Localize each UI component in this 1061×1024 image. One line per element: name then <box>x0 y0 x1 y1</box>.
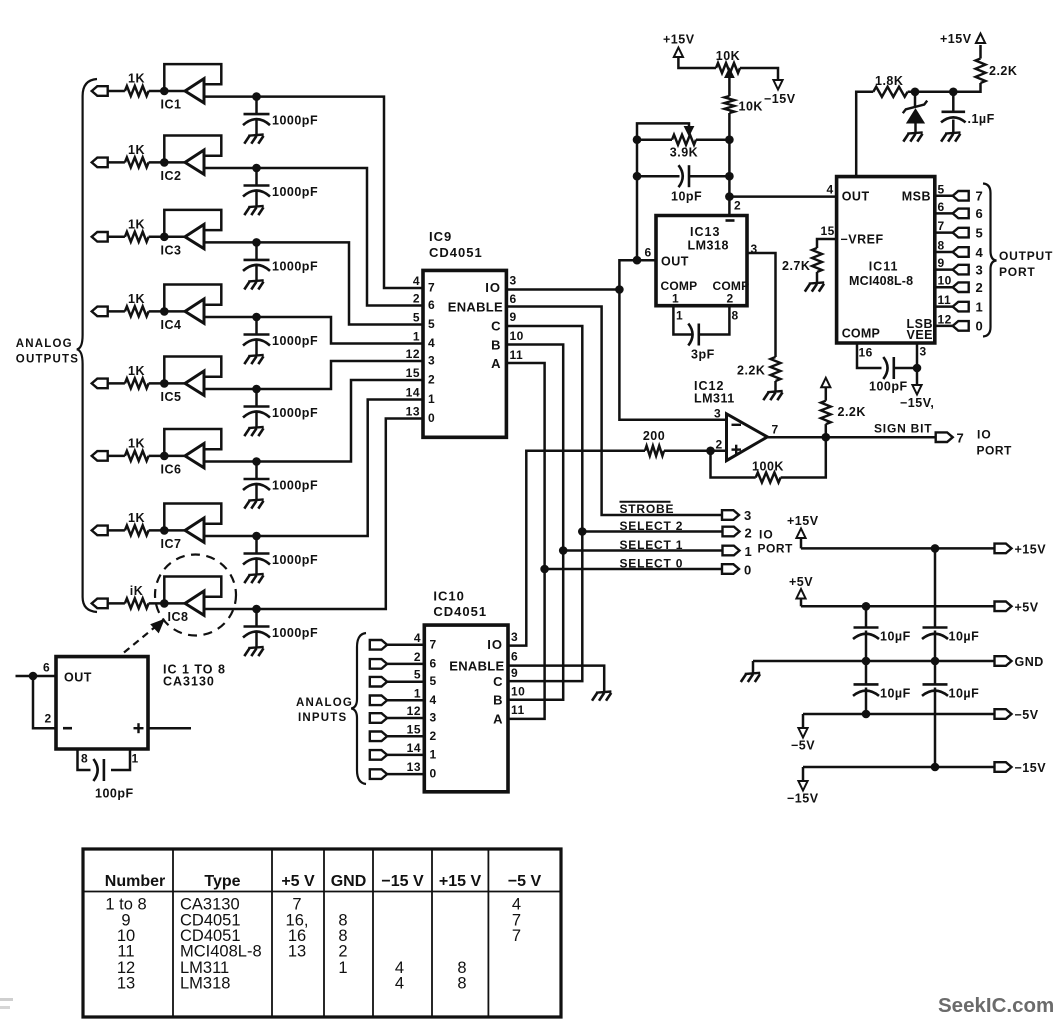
capacitor 1000pF (IC8) <box>243 609 318 656</box>
svg-text:11: 11 <box>510 348 524 362</box>
label LM318 <box>688 239 729 253</box>
svg-text:9: 9 <box>938 256 945 270</box>
IC13 box (LM318 op-amp) <box>656 216 747 306</box>
svg-text:0: 0 <box>428 411 435 425</box>
IC9 pin 6 ENABLE wire <box>506 307 722 516</box>
output port terminal bit 2 <box>953 280 984 295</box>
wire DAC OUT to IC11 pin 4 <box>729 195 836 198</box>
wire input terminal to IC10 pin 1 <box>387 754 424 757</box>
IC10 inside pin label 3 <box>430 711 437 725</box>
IC9 pin 10 label <box>510 329 524 343</box>
IC9 inside pin label 0 <box>428 411 435 425</box>
svg-text:5: 5 <box>938 182 945 196</box>
wire +5V rail <box>801 605 995 608</box>
svg-text:2: 2 <box>414 650 421 664</box>
svg-text:3.9K: 3.9K <box>670 146 698 160</box>
svg-text:PORT: PORT <box>758 542 794 556</box>
output port terminal bit 5 <box>953 225 984 240</box>
wire IC5 input from mux <box>204 361 423 389</box>
node IO to comparator <box>615 285 624 294</box>
node junction at IC8 output <box>160 599 169 608</box>
svg-text:IC13: IC13 <box>690 225 720 239</box>
svg-text:1000pF: 1000pF <box>272 406 318 420</box>
terminal SIGN BIT (IO port bit 7) <box>936 431 965 446</box>
svg-text:IC3: IC3 <box>161 243 182 257</box>
node GND rail right <box>931 657 940 666</box>
IC13 OUT label <box>661 255 689 269</box>
svg-text:IC6: IC6 <box>161 462 182 476</box>
CA3130 detail box <box>56 657 148 749</box>
wire 2.2K to ground <box>774 381 777 392</box>
node 10pF left <box>633 172 642 181</box>
IC11 pin 11 label <box>938 293 952 307</box>
analog output terminal (IC3) <box>92 232 108 242</box>
svg-text:1: 1 <box>745 544 753 559</box>
CA3130 pin 8 label <box>81 752 88 766</box>
wire IC1 input from mux <box>204 97 423 288</box>
IC13 pin 3 wire <box>747 253 776 357</box>
IC9 left pin number 4 <box>413 274 420 288</box>
svg-text:10: 10 <box>510 329 524 343</box>
svg-text:−15V: −15V <box>1015 761 1047 775</box>
CA3130 pin 1 label <box>132 752 139 766</box>
node junction at IC5 output <box>160 379 169 388</box>
IC10 pin 3 IO wire <box>508 451 645 646</box>
svg-text:8: 8 <box>938 239 945 253</box>
right rail to IC13 pin2 <box>728 140 731 216</box>
svg-text:CD4051: CD4051 <box>433 604 487 619</box>
wire LM311 output <box>767 436 935 439</box>
svg-text:ANALOG: ANALOG <box>296 697 353 709</box>
svg-text:SIGN BIT: SIGN BIT <box>874 422 932 436</box>
node GND rail left <box>862 657 871 666</box>
label IC 1 TO 8 <box>163 663 226 677</box>
svg-text:11: 11 <box>938 293 952 307</box>
IC10 pin 6 label <box>511 650 518 664</box>
IC9 ENABLE label <box>448 300 503 315</box>
svg-text:GND: GND <box>1015 655 1044 669</box>
wire +5V col upper <box>865 606 868 627</box>
IC10 IO label <box>487 637 503 652</box>
svg-text:SELECT 1: SELECT 1 <box>620 538 684 552</box>
terminal SELECT 0 (bit 0) <box>722 563 752 578</box>
node feedback rail to OUT <box>633 256 642 265</box>
feedback loop wire (IC4) <box>164 285 221 312</box>
wire terminal to resistor (IC4) <box>108 310 125 313</box>
IC10 B label <box>493 693 503 708</box>
label IO PORT (sign bit) <box>977 428 1013 458</box>
terminal +5V <box>995 601 1039 615</box>
svg-text:−15V: −15V <box>764 92 796 106</box>
svg-text:6: 6 <box>645 246 652 260</box>
svg-text:200: 200 <box>643 429 665 443</box>
svg-text:0: 0 <box>976 319 984 334</box>
wire IC8 input from mux <box>204 419 423 610</box>
svg-text:VEE: VEE <box>906 328 933 342</box>
IC11 VEE label <box>906 328 933 342</box>
IC11 pin 8 wire <box>935 251 953 254</box>
svg-text:ENABLE: ENABLE <box>449 659 504 674</box>
analog input terminal (IC10 pin 0) <box>370 769 387 779</box>
svg-text:6: 6 <box>938 200 945 214</box>
node junction at IC1 output <box>160 87 169 96</box>
IC11 VEE pin wire <box>916 343 919 368</box>
svg-text:10µF: 10µF <box>880 687 911 701</box>
node 10pF right <box>725 172 734 181</box>
svg-text:15: 15 <box>406 366 420 380</box>
feedback wire 100K <box>711 437 826 477</box>
IC10 left pin number 4 <box>414 631 421 645</box>
svg-text:10K: 10K <box>716 49 740 63</box>
wire terminal to resistor (IC8) <box>108 602 125 605</box>
terminal -5V <box>995 708 1039 722</box>
svg-text:1000pF: 1000pF <box>272 334 318 348</box>
svg-text:LM318: LM318 <box>180 975 230 993</box>
svg-text:12: 12 <box>406 347 420 361</box>
wire -15V rail <box>803 766 995 769</box>
svg-text:10: 10 <box>938 274 952 288</box>
node junction at IC6 output <box>160 452 169 461</box>
node junction at IC2 capacitor <box>252 164 261 173</box>
wire terminal to resistor (IC5) <box>108 382 125 385</box>
IC10 A label <box>493 712 503 727</box>
svg-text:7: 7 <box>428 281 435 295</box>
resistor 1.8K <box>873 74 907 97</box>
resistor 3.9K (gain trim) <box>637 135 729 160</box>
analog output terminal (IC8) <box>92 599 108 609</box>
svg-text:IC10: IC10 <box>433 589 464 604</box>
svg-text:7: 7 <box>938 219 945 233</box>
wire input terminal to IC10 pin 5 <box>387 680 424 683</box>
IC11 LSB label <box>907 317 934 331</box>
node junction at IC8 capacitor <box>252 605 261 614</box>
capacitor 100pF (IC11 comp) <box>869 357 908 394</box>
svg-text:.1µF: .1µF <box>968 112 995 126</box>
svg-text:PORT: PORT <box>977 444 1013 458</box>
wire IC2 input from mux <box>204 168 423 306</box>
svg-text:13: 13 <box>406 405 420 419</box>
svg-text:1: 1 <box>976 299 984 314</box>
svg-text:SeekIC.com: SeekIC.com <box>938 994 1054 1017</box>
label IC11 <box>869 260 899 274</box>
svg-text:9: 9 <box>511 666 518 680</box>
feedback loop wire (IC7) <box>164 504 221 531</box>
wire input terminal to IC10 pin 6 <box>387 663 424 666</box>
wire resistor to op-amp IC5 <box>149 382 185 385</box>
wire IC13 OUT to LM311 minus <box>619 260 726 420</box>
IC11 pin 11 wire <box>935 305 953 308</box>
op-amp IC7 (CA3130 follower) <box>161 518 204 551</box>
power -15V arrow (VEE) <box>900 368 934 410</box>
IC11 pin 10 wire <box>935 286 953 289</box>
svg-text:4: 4 <box>395 975 404 993</box>
feedback loop wire (IC6) <box>164 429 221 456</box>
wire resistor to op-amp IC7 <box>149 529 185 532</box>
svg-text:7: 7 <box>430 637 437 651</box>
svg-text:COMP: COMP <box>842 327 880 341</box>
svg-text:3: 3 <box>430 711 437 725</box>
resistor 1K (IC1 input) <box>125 72 149 97</box>
op-amp IC1 (CA3130 follower) <box>161 79 204 112</box>
capacitor 10pF (feedback) <box>637 165 729 203</box>
capacitor 3pF (IC13 comp) <box>688 324 714 362</box>
power +15V arrow (pot top) <box>663 33 716 69</box>
brace for analog inputs <box>351 633 366 784</box>
wire resistor to op-amp IC3 <box>149 236 185 239</box>
op-amp IC4 (CA3130 follower) <box>161 299 204 332</box>
capacitor 1000pF (IC7) <box>243 536 318 583</box>
IC10 left pin number 14 <box>407 741 421 755</box>
wire terminal to resistor (IC1) <box>108 90 125 93</box>
IC10 left pin number 2 <box>414 650 421 664</box>
svg-text:1: 1 <box>338 959 347 977</box>
capacitor 10uF (+15V) <box>922 628 979 644</box>
svg-text:10pF: 10pF <box>671 190 702 204</box>
resistor 2.2K (LM311 pullup) <box>821 378 866 437</box>
svg-text:2: 2 <box>716 438 723 452</box>
label SIGN BIT <box>874 422 932 436</box>
op-amp IC5 (CA3130 follower) <box>161 371 204 404</box>
label ANALOG OUTPUTS <box>16 338 79 365</box>
svg-text:IC8: IC8 <box>168 610 189 624</box>
IC10 left pin number 1 <box>414 686 421 700</box>
watermark SeekIC.com <box>938 994 1054 1017</box>
node junction at IC7 capacitor <box>252 532 261 541</box>
IC9 left pin number 5 <box>413 311 420 325</box>
svg-text:6: 6 <box>511 650 518 664</box>
svg-text:IC5: IC5 <box>161 390 182 404</box>
analog input terminal (IC10 pin 1) <box>370 750 387 760</box>
label IC12 <box>694 379 724 393</box>
output port terminal bit 3 <box>953 262 984 277</box>
svg-text:−5V: −5V <box>791 739 815 753</box>
svg-text:MCI408L-8: MCI408L-8 <box>849 274 913 288</box>
label MCI408L-8 <box>849 274 913 288</box>
dashed circle around IC8 <box>155 555 236 636</box>
svg-text:6: 6 <box>976 206 984 221</box>
svg-text:1: 1 <box>132 752 139 766</box>
IC9 inside pin label 5 <box>428 317 435 331</box>
power +15V arrow (rail) <box>787 514 819 548</box>
wire +15V rail <box>801 547 995 550</box>
svg-text:8: 8 <box>81 752 88 766</box>
svg-text:+5 V: +5 V <box>281 873 315 890</box>
svg-text:−15V: −15V <box>787 792 819 806</box>
analog output terminal (IC1) <box>92 86 108 96</box>
svg-text:12: 12 <box>407 704 421 718</box>
capacitor 100pF (CA3130 comp) <box>93 759 133 801</box>
wire 2.7K to ground <box>816 272 819 283</box>
svg-text:+15V: +15V <box>663 33 695 47</box>
brace for analog outputs <box>77 79 97 612</box>
pot wiper arrow (10K) <box>725 69 733 96</box>
svg-text:IC1: IC1 <box>161 98 182 112</box>
IC10 pin 6 ENABLE wire <box>508 666 604 693</box>
wire SELECT 2 <box>582 530 722 533</box>
IC10 inside pin label 1 <box>430 747 437 761</box>
node DAC output <box>725 192 734 201</box>
output port terminal bit 6 <box>953 206 984 221</box>
IC10 inside pin label 4 <box>430 693 437 707</box>
svg-text:ENABLE: ENABLE <box>448 300 503 315</box>
svg-text:IC2: IC2 <box>161 169 182 183</box>
IC11 pin 6 wire <box>935 212 953 215</box>
svg-text:6: 6 <box>428 298 435 312</box>
svg-text:6: 6 <box>510 292 517 306</box>
ground (IC10 enable) <box>592 692 611 701</box>
IC9 left pin number 2 <box>413 292 420 306</box>
IC11 pin 12 label <box>938 312 952 326</box>
wire IC6 input from mux <box>204 380 423 462</box>
wire terminal to resistor (IC6) <box>108 455 125 458</box>
IC11 pin 12 wire <box>935 325 953 328</box>
svg-text:2: 2 <box>338 943 347 961</box>
left feedback rail <box>636 140 639 261</box>
svg-text:iK: iK <box>130 584 144 598</box>
IC10 inside pin label 0 <box>430 767 437 781</box>
label IC9 <box>429 229 452 244</box>
svg-text:4: 4 <box>414 631 421 645</box>
CA3130 minus sign <box>63 727 72 730</box>
op-amp IC8 (CA3130 follower) <box>168 591 204 624</box>
svg-text:11: 11 <box>117 943 134 961</box>
svg-text:IC7: IC7 <box>161 537 182 551</box>
wire IC11 -VREF to 2.7K <box>817 239 837 248</box>
power -15V arrow (pot) <box>764 80 796 106</box>
CA3130 comp pins wiring <box>78 749 131 770</box>
power -5V arrow (rail) <box>791 714 815 753</box>
op-amp IC6 (CA3130 follower) <box>161 444 204 477</box>
svg-text:1K: 1K <box>128 72 145 86</box>
ground (zener) <box>903 132 922 141</box>
svg-text:12: 12 <box>938 312 952 326</box>
svg-text:16: 16 <box>859 346 873 360</box>
node summing right rail top <box>725 135 734 144</box>
IC10 inside pin label 6 <box>430 656 437 670</box>
svg-text:+5V: +5V <box>1015 601 1039 615</box>
svg-text:0: 0 <box>744 563 752 578</box>
IC11 pin 7 wire <box>935 231 953 234</box>
wire -5V rail <box>803 713 995 716</box>
svg-text:1K: 1K <box>128 511 145 525</box>
svg-text:1K: 1K <box>128 143 145 157</box>
svg-text:10µF: 10µF <box>949 630 980 644</box>
wire +15V col mid <box>934 631 937 685</box>
node +5V rail <box>862 602 871 611</box>
svg-text:1000pF: 1000pF <box>272 185 318 199</box>
wire resistor to op-amp IC1 <box>149 90 185 93</box>
wire resistor to op-amp IC8 <box>149 602 185 605</box>
analog input terminal (IC10 pin 4) <box>370 696 387 706</box>
svg-text:4: 4 <box>827 183 834 197</box>
svg-text:MCI408L-8: MCI408L-8 <box>180 943 262 961</box>
svg-text:7: 7 <box>976 189 984 204</box>
IC11 pin 9 wire <box>935 268 953 271</box>
capacitor .1uF <box>941 92 995 133</box>
svg-text:5: 5 <box>413 311 420 325</box>
wire -15V col lower <box>934 688 937 768</box>
IC12 pin 2 label <box>716 438 723 452</box>
label SELECT 1 <box>620 538 684 552</box>
svg-text:13: 13 <box>288 943 306 961</box>
table row 1 to 8 CA3130 <box>105 896 521 914</box>
svg-text:1.8K: 1.8K <box>875 74 903 88</box>
IC13 pin 3 label <box>751 242 758 256</box>
node junction at IC2 output <box>160 158 169 167</box>
scan artifact marks (gray, bottom left) <box>0 998 13 1009</box>
CA3130 plus sign <box>134 723 144 733</box>
IC11 MSB label <box>902 190 931 204</box>
capacitor 1000pF (IC5) <box>243 389 318 436</box>
analog input terminal (IC10 pin 3) <box>370 713 387 723</box>
resistor 2.2K (IC13 pin3) <box>737 357 781 381</box>
IC10 pin 11 label <box>511 703 525 717</box>
svg-text:1: 1 <box>414 686 421 700</box>
terminal -15V <box>995 761 1047 775</box>
wire terminal to resistor (IC3) <box>108 236 125 239</box>
svg-text:ANALOG: ANALOG <box>16 338 73 350</box>
svg-text:5: 5 <box>430 674 437 688</box>
IC9 inside pin label 2 <box>428 373 435 387</box>
output port terminal bit 4 <box>953 245 984 260</box>
IC11 -VREF label <box>841 233 884 247</box>
IC10 left pin number 5 <box>414 668 421 682</box>
table row 9 CD4051 <box>121 911 521 929</box>
IC12 pin 3 label <box>714 407 721 421</box>
resistor 1K (IC8 input) <box>125 584 149 609</box>
IC9 pin 3 IO wire <box>506 288 619 291</box>
IC9 box (CD4051 mux) <box>423 270 506 437</box>
analog output terminal (IC7) <box>92 526 108 536</box>
feedback loop wire (IC3) <box>164 210 221 237</box>
svg-text:2: 2 <box>413 292 420 306</box>
wire 10K to summing node <box>728 113 731 140</box>
IC9 pin 10 B wire <box>506 345 563 700</box>
table row 12 LM311 <box>117 959 467 977</box>
IC10 box (CD4051 mux) <box>424 625 508 792</box>
svg-text:1K: 1K <box>128 217 145 231</box>
table row 11 MCI408L-8 <box>117 943 347 961</box>
svg-text:13: 13 <box>407 760 421 774</box>
node select2 junction <box>578 527 587 536</box>
CA3130 OUT label <box>64 671 92 685</box>
svg-text:4: 4 <box>976 245 984 260</box>
resistor 200 (LM311 + input) <box>643 429 727 456</box>
svg-text:GND: GND <box>331 873 367 890</box>
svg-text:2.2K: 2.2K <box>989 64 1017 78</box>
label LM311 <box>694 392 735 406</box>
node zener tap <box>911 88 920 97</box>
node junction at IC5 capacitor <box>252 385 261 394</box>
svg-text:2.7K: 2.7K <box>782 259 810 273</box>
node -15V rail <box>931 763 940 772</box>
analog input terminal (IC10 pin 6) <box>370 659 387 669</box>
IC11 pin 10 label <box>938 274 952 288</box>
svg-text:10K: 10K <box>739 100 763 114</box>
resistor 2.2K (+15V pullup) <box>976 59 1018 84</box>
capacitor 1000pF (IC3) <box>243 242 318 289</box>
svg-text:C: C <box>491 319 501 334</box>
IC10 left pin number 15 <box>407 722 421 736</box>
svg-text:B: B <box>491 338 501 353</box>
CA3130 pin 6 label <box>43 661 50 675</box>
IC11 COMP label <box>842 327 880 341</box>
IC9 pin 11 label <box>510 348 524 362</box>
IC9 pin 3 label <box>510 274 517 288</box>
wire IC11 top rail <box>856 92 873 177</box>
svg-text:−15V,: −15V, <box>900 396 934 410</box>
feedback loop wire (IC8) <box>164 577 221 604</box>
